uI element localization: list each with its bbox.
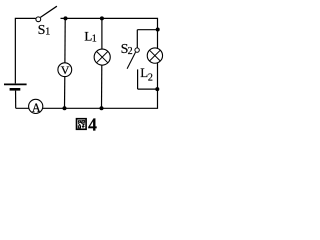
wire top segment right of S1, right vertical, bottom wire	[16, 18, 158, 108]
caption figure box (tu character)	[77, 119, 87, 130]
wire battery bottom lead	[15, 91, 17, 109]
wire S2 bottom junction horizontal	[138, 88, 158, 90]
switch S1 pivot	[36, 17, 41, 22]
node dot bottom junction voltmeter	[63, 106, 67, 110]
ammeter U-A	[29, 99, 43, 113]
svg-text:V: V	[61, 63, 70, 77]
wire top-left segment and left vertical (battery top lead)	[15, 18, 35, 83]
wire voltmeter branch upper	[64, 18, 66, 63]
svg-text:1: 1	[92, 34, 97, 45]
node dot top junction to lamp L1	[100, 16, 104, 20]
node dot top junction to voltmeter	[64, 16, 68, 20]
battery short plate (negative)	[10, 88, 21, 91]
svg-text:A: A	[32, 101, 41, 115]
wire lamp L1 branch lower	[101, 65, 103, 108]
voltmeter U-V	[58, 63, 72, 77]
lamp L1	[94, 49, 110, 65]
wire voltmeter branch lower	[64, 76, 66, 108]
switch S2 lower lead	[137, 69, 139, 89]
svg-text:1: 1	[45, 26, 50, 37]
switch S2 upper lead	[136, 30, 138, 48]
switch S2 blade	[127, 52, 135, 68]
svg-text:4: 4	[88, 114, 97, 134]
switch S2 pivot	[135, 48, 139, 52]
node dot bottom junction S2/L2	[155, 87, 159, 91]
svg-text:2: 2	[148, 72, 153, 83]
battery long plate (positive)	[4, 83, 27, 85]
switch S2 branch horizontal from right vertical	[137, 29, 157, 31]
lamp L2	[147, 48, 162, 63]
switch S1 blade	[40, 6, 57, 17]
wire lamp L1 branch upper	[101, 18, 103, 49]
svg-text:2: 2	[128, 46, 133, 57]
node dot right junction to S2	[156, 28, 160, 32]
node dot bottom junction lamp L1	[100, 106, 104, 110]
